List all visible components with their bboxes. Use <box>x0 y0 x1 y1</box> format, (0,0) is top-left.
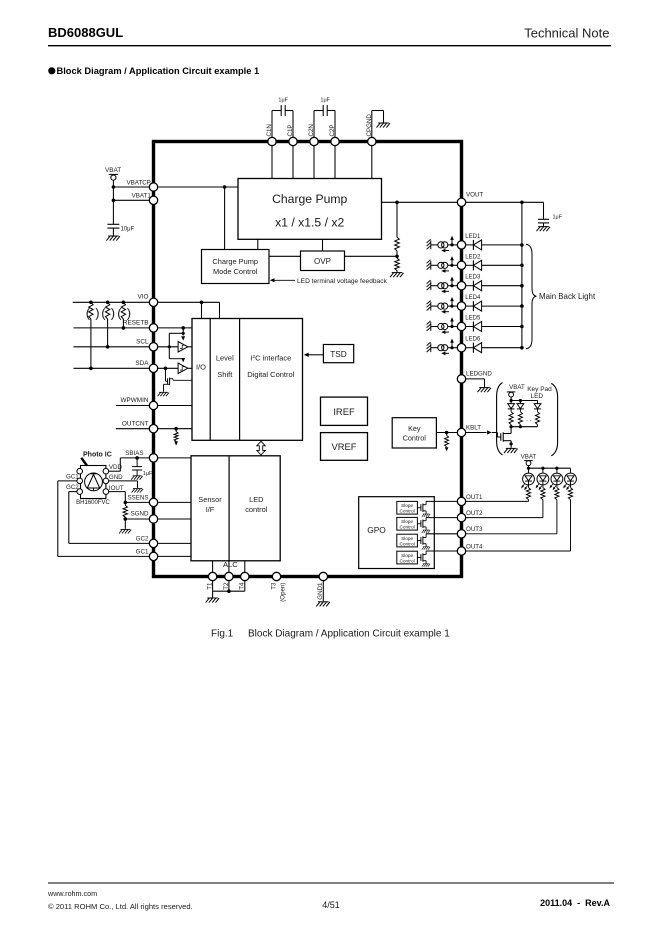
svg-text:Block Diagram / Application Ci: Block Diagram / Application Circuit exam… <box>248 629 450 640</box>
block Charge Pump x1/x1.5/x2 <box>238 179 382 240</box>
wire LED anode rail <box>521 202 523 347</box>
ground below 10uF <box>106 236 120 241</box>
pin T3 (Open) <box>272 572 280 580</box>
svg-text:© 2011 ROHM Co., Ltd. All righ: © 2011 ROHM Co., Ltd. All rights reserve… <box>48 902 193 911</box>
resistor pull-up R1 (SDA) <box>89 302 93 319</box>
pin KBLT <box>457 428 465 436</box>
node keypad bottom rail 2 <box>519 425 522 428</box>
svg-text:OUTCNT: OUTCNT <box>122 420 149 427</box>
svg-text:OUT3: OUT3 <box>466 526 483 533</box>
node rail LED2 <box>520 264 524 268</box>
svg-text:GC2: GC2 <box>66 484 79 491</box>
node LED2 sink junction <box>450 264 453 267</box>
pin OUT3 <box>457 530 465 538</box>
svg-text:Control: Control <box>400 541 415 546</box>
svg-text:Photo IC: Photo IC <box>83 452 112 459</box>
pin T4 <box>241 572 249 580</box>
LED D4 Main Back Light <box>466 305 473 307</box>
schmitt buffer SDA <box>178 363 188 373</box>
block OVP <box>301 251 345 271</box>
wire OUTCNT internal <box>158 428 192 430</box>
node LED3 sink junction <box>450 284 453 287</box>
svg-text:ALC: ALC <box>223 560 238 569</box>
svg-text:OUT1: OUT1 <box>466 494 483 501</box>
wire Charge Pump output to VOUT pin <box>382 201 458 203</box>
pin VOUT <box>457 198 465 206</box>
svg-text:I2C interface: I2C interface <box>250 354 291 363</box>
svg-text:): ) <box>127 306 131 321</box>
photo IC pin IOUT <box>103 489 109 495</box>
svg-text:TSD: TSD <box>330 349 347 359</box>
wire branch down to Mode Control <box>224 187 226 250</box>
svg-text:VBATCP: VBATCP <box>127 179 151 186</box>
resistor pull-up R3 (RESETB) <box>121 302 125 319</box>
wire OVP to feedback divider node <box>345 255 398 257</box>
pin LED3 <box>457 282 465 290</box>
node sub LED rail 3 <box>555 467 558 470</box>
svg-text:GC1: GC1 <box>136 548 149 555</box>
svg-text:LED1: LED1 <box>465 234 481 240</box>
svg-text:LEDGND: LEDGND <box>466 371 492 378</box>
node rail LED4 <box>520 304 524 308</box>
key pad resistor 2 <box>518 412 522 425</box>
wire sub LED top rail <box>529 467 571 469</box>
svg-text:LED: LED <box>530 393 543 400</box>
transistor GPO NMOS 2 <box>417 523 421 525</box>
wire GC2 photo IC to chip <box>69 491 77 493</box>
photo IC pin NC top-left <box>77 468 83 474</box>
node branch-SCL junction <box>168 345 171 348</box>
wire top pins to Charge Pump block <box>271 146 273 179</box>
node keypad rail 1 <box>510 399 513 402</box>
photo IC BH1600FVC body <box>81 466 106 499</box>
svg-text:VBAT: VBAT <box>509 384 525 391</box>
svg-text:Mode Control: Mode Control <box>213 267 258 276</box>
svg-text:VBAT: VBAT <box>105 167 121 174</box>
pin LED6 <box>457 344 465 352</box>
sub LED 3 <box>556 468 558 473</box>
pin LEDGND <box>457 375 465 383</box>
pin LED1 <box>457 241 465 249</box>
wire LED2 anode to rail <box>482 264 522 266</box>
wire sub LED 3 to OUT3 <box>556 500 558 534</box>
node SSENS divider top <box>124 501 128 505</box>
svg-text:OVP: OVP <box>314 257 331 266</box>
wire Key Control to KBLT pin <box>436 432 457 434</box>
LED1 current sink (inside IC) <box>427 239 431 249</box>
wire SBIAS internal <box>158 457 191 459</box>
svg-text:LED: LED <box>249 495 263 504</box>
LED6 current sink (inside IC) <box>427 342 431 352</box>
svg-text:): ) <box>111 306 115 321</box>
wire SDA internal <box>158 367 178 369</box>
svg-text:1μF: 1μF <box>553 215 563 221</box>
LED D2 Main Back Light <box>466 264 473 266</box>
svg-text:SCL: SCL <box>136 338 149 345</box>
block VREF <box>321 433 368 461</box>
block TSD <box>323 345 353 363</box>
node rail LED5 <box>520 325 524 329</box>
wire to VBAT1 pin <box>113 199 149 201</box>
photo IC pin GND <box>103 478 109 484</box>
ground at photo IC GND <box>132 489 143 493</box>
pin VBATCP <box>149 183 157 191</box>
current set arrow up LED5 <box>451 320 453 326</box>
pin VIO <box>149 298 157 306</box>
svg-text:(: ( <box>101 306 106 321</box>
wire OUTCNT external <box>116 428 150 430</box>
wire to VBATCP pin <box>113 186 149 188</box>
pin RESETB <box>149 324 157 332</box>
svg-text:2011.04 - Rev.A: 2011.04 - Rev.A <box>540 898 610 908</box>
svg-text:GC2: GC2 <box>136 535 149 542</box>
node VBAT-VBAT1 junction <box>112 199 116 203</box>
wire RESETB external <box>74 327 150 329</box>
wire R1 to SDA line <box>90 319 92 368</box>
wire GPO to OUT4 pin <box>426 550 457 552</box>
node keypad bottom rail 1 <box>510 425 513 428</box>
capacitor 1uF on VOUT <box>543 202 545 219</box>
ground below SGND <box>119 529 131 533</box>
svg-text:Control: Control <box>400 525 415 530</box>
node VBAT-VBATCP junction <box>112 185 116 189</box>
pin OUT1 <box>457 497 465 505</box>
resistor OUTCNT pulldown with arrow <box>175 429 177 432</box>
resistor divider lower <box>395 258 400 270</box>
ground below divider <box>390 273 404 278</box>
node rail LED1 <box>520 243 524 247</box>
transistor SDA open-drain NMOS <box>165 368 167 381</box>
wire sub LED 1 to OUT1 <box>528 500 530 502</box>
svg-text:GC1: GC1 <box>66 473 79 480</box>
pin SCL <box>149 343 157 351</box>
svg-text:SBIAS: SBIAS <box>125 450 143 457</box>
wire LED1 anode to rail <box>482 244 522 246</box>
pin GND1 <box>319 572 327 580</box>
svg-text:SGND: SGND <box>131 511 149 518</box>
svg-text:10μF: 10μF <box>121 226 135 232</box>
LED D1 Main Back Light <box>466 244 473 246</box>
wire WPWMIN internal <box>158 405 192 407</box>
wire VOUT to output cap <box>466 201 544 203</box>
svg-text:Main Back Light: Main Back Light <box>539 292 596 301</box>
wire SCL buffer output <box>188 346 192 348</box>
svg-text:Fig.1: Fig.1 <box>211 629 234 640</box>
svg-text:Sensor: Sensor <box>198 495 222 504</box>
wire branch to SDA buffer arrow <box>169 358 183 360</box>
wire RESETB internal <box>158 327 192 329</box>
IC body outline BD6088GUL <box>154 142 462 577</box>
wire divider from VOUT <box>396 202 398 237</box>
wire GC1 photo IC to chip <box>58 480 77 482</box>
svg-text:1μF: 1μF <box>143 471 153 477</box>
node keypad rail 2 <box>519 399 522 402</box>
current set arrow up LED6 <box>451 341 453 347</box>
pin WPWMIN <box>149 401 157 409</box>
svg-text:SSENS: SSENS <box>128 494 149 501</box>
LED2 current sink (inside IC) <box>427 260 431 270</box>
pin LED2 <box>457 261 465 269</box>
node RESETB internal <box>181 326 185 330</box>
wire TSD to I2C block with arrow <box>308 354 323 356</box>
block Slope Control 2 <box>397 517 418 530</box>
svg-text:Control: Control <box>400 558 415 563</box>
node LED4 sink junction <box>450 305 453 308</box>
node SGND junction <box>124 517 128 521</box>
svg-text:C2P: C2P <box>329 124 336 136</box>
block Charge Pump Mode Control <box>202 250 270 284</box>
wire GPO to OUT2 pin <box>426 517 457 519</box>
svg-text:LED6: LED6 <box>465 337 481 343</box>
wire KBLT to keypad NMOS gate <box>466 432 487 434</box>
svg-text:Charge Pump: Charge Pump <box>212 257 258 266</box>
transistor GPO NMOS 1 <box>417 507 421 509</box>
current flow arrow LED2 <box>443 270 449 272</box>
svg-text:RESETB: RESETB <box>123 320 149 327</box>
ground GPO NMOS 4 <box>422 564 430 567</box>
svg-text:LED3: LED3 <box>465 275 481 281</box>
wire SCL external <box>74 346 150 348</box>
wire R3 to RESETB line <box>122 319 124 328</box>
resistor KBLT pulldown with arrow <box>446 433 448 436</box>
ground at SDA NMOS <box>158 392 169 396</box>
sub LED resistor 1 <box>528 485 530 488</box>
wire LED4 anode to rail <box>482 305 522 307</box>
ground at keypad NMOS source <box>504 448 517 453</box>
svg-text:Level: Level <box>216 354 234 363</box>
svg-text:Charge Pump: Charge Pump <box>272 192 347 206</box>
wire VDD to SBIAS line <box>109 470 121 472</box>
LED D6 Main Back Light <box>466 347 473 349</box>
block IREF <box>321 397 368 425</box>
ground at CPGND <box>377 123 391 128</box>
pin T2 <box>225 572 233 580</box>
node R1-SDA <box>89 367 93 371</box>
LED3 current sink (inside IC) <box>427 280 431 290</box>
resistor divider upper <box>395 237 400 251</box>
svg-text:C1P: C1P <box>287 124 294 136</box>
photo IC pin VDD <box>103 468 109 474</box>
Key Pad LED group left parenthesis <box>497 383 503 455</box>
svg-text:Shift: Shift <box>217 370 233 379</box>
wire CPGND to ground <box>371 111 373 138</box>
bus arrow between digital control and ALC <box>257 441 265 455</box>
node SDA gate branch <box>164 367 168 371</box>
header rule <box>48 45 611 47</box>
wire SGND to ground <box>124 519 126 529</box>
node divider mid to OVP <box>395 254 399 258</box>
wire photo IC GND to ground <box>109 480 138 482</box>
wire VBATCP to Charge Pump <box>158 186 238 188</box>
node sub LED rail 1 <box>527 467 530 470</box>
svg-text:OUT2: OUT2 <box>466 510 483 517</box>
wire T2 to ALC block <box>228 561 230 573</box>
pin C1N <box>268 137 276 145</box>
key pad resistor 3 <box>535 412 539 425</box>
node SBIAS cap <box>135 456 139 460</box>
svg-text:IOUT: IOUT <box>109 485 124 492</box>
svg-text:VREF: VREF <box>331 441 356 452</box>
pin VBAT1 <box>149 196 157 204</box>
current flow arrow LED4 <box>443 311 449 313</box>
node LED5 sink junction <box>450 325 453 328</box>
ground below SBIAS cap <box>131 476 142 480</box>
block Key Control <box>392 418 436 448</box>
svg-text:1μF: 1μF <box>278 98 288 104</box>
svg-text:Technical Note: Technical Note <box>524 26 609 41</box>
LED D5 Main Back Light <box>466 326 473 328</box>
wire Mode Control to OVP <box>269 255 301 257</box>
svg-text:VBAT: VBAT <box>521 454 537 461</box>
ground GPO NMOS 3 <box>422 547 430 550</box>
svg-text:x1 / x1.5 / x2: x1 / x1.5 / x2 <box>275 216 344 230</box>
svg-text:BD6088GUL: BD6088GUL <box>48 25 123 40</box>
LED D3 Main Back Light <box>466 285 473 287</box>
sub LED resistor 2 <box>542 485 544 488</box>
wire GPO to OUT1 pin <box>426 500 457 502</box>
wire T4 to ALC block <box>244 561 246 573</box>
svg-text:LED2: LED2 <box>465 254 481 260</box>
sub LED 1 <box>528 468 530 473</box>
node R2-SCL <box>106 345 110 349</box>
resistor SSENS-SGND <box>124 502 126 505</box>
svg-text:Slope: Slope <box>401 553 413 558</box>
block GPO <box>359 497 435 569</box>
svg-text:T3: T3 <box>270 582 277 590</box>
node rail LED6 <box>520 346 524 350</box>
svg-text:(Open): (Open) <box>279 583 286 602</box>
svg-text:GPO: GPO <box>367 525 386 535</box>
capacitor C2 1uF (flying cap C2N-C2P) <box>313 111 315 138</box>
pin OUT2 <box>457 513 465 521</box>
pin SBIAS <box>149 454 157 462</box>
block Slope Control 4 <box>397 551 418 564</box>
wire LED6 anode to rail <box>482 347 522 349</box>
wire SDA buffer output <box>188 367 192 369</box>
pin SSENS <box>149 498 157 506</box>
svg-text:C2N: C2N <box>308 124 315 136</box>
transistor GPO NMOS 4 <box>417 557 421 559</box>
node VBATCP branch <box>223 185 227 189</box>
svg-text:LED4: LED4 <box>465 295 481 301</box>
pin CPGND <box>368 137 376 145</box>
svg-text:Block Diagram / Application Ci: Block Diagram / Application Circuit exam… <box>57 66 260 76</box>
node R3-RESETB <box>122 326 126 330</box>
svg-text:Control: Control <box>403 434 427 443</box>
pin GC2 <box>149 539 157 547</box>
block Sensor I/F and LED control (ALC) <box>191 456 280 561</box>
node KBLT pulldown <box>445 431 449 435</box>
LED terminal voltage feedback arrow <box>274 279 296 281</box>
sub LED 2 <box>542 468 544 473</box>
current set arrow up LED1 <box>451 238 453 244</box>
node VIO internal branch <box>200 301 204 305</box>
pin C2P <box>331 137 339 145</box>
node pull-up R2 top <box>106 301 110 305</box>
key pad LED diode 1 <box>510 401 512 404</box>
current set arrow up LED2 <box>451 258 453 264</box>
svg-text:CPGND: CPGND <box>366 114 373 137</box>
node VOUT sense divider tap <box>395 201 399 205</box>
capacitor 10uF on VBAT <box>107 223 119 225</box>
wire VIO external <box>73 301 150 303</box>
wire GPO to OUT3 pin <box>426 533 457 535</box>
node rail LED3 <box>520 284 524 288</box>
node pull-up R1 top <box>89 301 93 305</box>
ground below VOUT cap <box>537 227 551 232</box>
wire key pad LED bottom rail <box>511 426 537 428</box>
sub LED resistor 4 <box>570 485 572 488</box>
svg-text:. .: . . <box>526 416 532 423</box>
node pull-up R3 top <box>122 301 126 305</box>
wire VIO branch to I/O block <box>201 302 203 318</box>
photo IC pin GC1 <box>77 478 83 484</box>
ground GPO NMOS 2 <box>422 530 430 533</box>
wire SGND external <box>125 518 149 520</box>
resistor pull-up R2 (SCL) <box>105 302 109 319</box>
wire GND1 to ground <box>322 581 324 602</box>
svg-text:KBLT: KBLT <box>466 424 481 431</box>
wire R2 to SCL line <box>107 319 109 347</box>
key pad resistor 1 <box>509 412 513 425</box>
wire RESETB branch to SCL buffer <box>169 332 183 334</box>
pin SDA <box>149 364 157 372</box>
node LED1 sink junction <box>450 243 453 246</box>
svg-text:Key Pad: Key Pad <box>527 386 552 393</box>
sub LED resistor 3 <box>556 485 558 488</box>
transistor GPO NMOS 3 <box>417 540 421 542</box>
wire GC1 internal <box>158 555 191 557</box>
wire VBAT rail down <box>112 180 114 224</box>
ground GPO NMOS 1 <box>422 514 430 517</box>
node T2 ground junction <box>227 589 231 593</box>
wire sub LED 2 to OUT2 <box>542 500 544 518</box>
pin C1P <box>289 137 297 145</box>
block Slope Control 1 <box>397 501 418 514</box>
wire LEDGND to ground <box>466 378 485 380</box>
svg-text:VBAT1: VBAT1 <box>132 193 152 200</box>
pin GC1 <box>149 552 157 560</box>
block Slope Control 3 <box>397 534 418 547</box>
current flow arrow LED5 <box>443 331 449 333</box>
node OUTCNT pulldown <box>174 427 178 431</box>
current set arrow up LED4 <box>451 299 453 305</box>
LED5 current sink (inside IC) <box>427 321 431 331</box>
svg-text:GND: GND <box>109 474 123 481</box>
wire T1 T2 T4 to ground <box>212 581 214 592</box>
pin OUTCNT <box>149 425 157 433</box>
wire LED5 anode to rail <box>482 326 522 328</box>
svg-text:I/F: I/F <box>206 505 215 514</box>
svg-text:Slope: Slope <box>401 503 413 508</box>
svg-text:LED terminal voltage feedback: LED terminal voltage feedback <box>297 278 388 285</box>
current set arrow up LED3 <box>451 279 453 285</box>
wire SSENS internal <box>158 501 191 503</box>
schmitt buffer SCL <box>178 342 188 352</box>
wire T1 to ALC block <box>212 561 214 573</box>
svg-text:4/51: 4/51 <box>322 900 340 910</box>
svg-text:Key: Key <box>408 424 421 433</box>
wire Charge Pump to OVP <box>322 239 324 251</box>
svg-text:1μF: 1μF <box>320 98 330 104</box>
svg-text:VOUT: VOUT <box>466 192 483 199</box>
wire Charge Pump to Mode Control <box>257 239 259 249</box>
pin OUT4 <box>457 547 465 555</box>
key pad LED diode 2 <box>519 401 521 404</box>
footer rule <box>48 882 614 884</box>
pin LED4 <box>457 302 465 310</box>
wire down to T ground <box>212 591 214 597</box>
